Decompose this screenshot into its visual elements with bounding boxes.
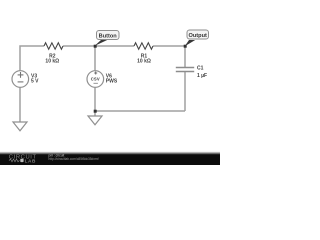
svg-text:CSV: CSV xyxy=(91,77,100,82)
svg-text:Button: Button xyxy=(99,34,118,40)
svg-text:PWS: PWS xyxy=(106,78,118,84)
svg-text:C1: C1 xyxy=(197,66,204,72)
svg-text:LAB: LAB xyxy=(25,158,36,163)
svg-text:http://circuitlab.com/c85t5dc3: http://circuitlab.com/c85t5dc35dxmf xyxy=(49,157,99,161)
svg-text:5 V: 5 V xyxy=(31,78,39,84)
svg-text:Output: Output xyxy=(189,33,207,39)
svg-text:10 kΩ: 10 kΩ xyxy=(137,59,151,65)
svg-text:10 kΩ: 10 kΩ xyxy=(45,59,59,65)
svg-text:1 µF: 1 µF xyxy=(197,73,207,79)
